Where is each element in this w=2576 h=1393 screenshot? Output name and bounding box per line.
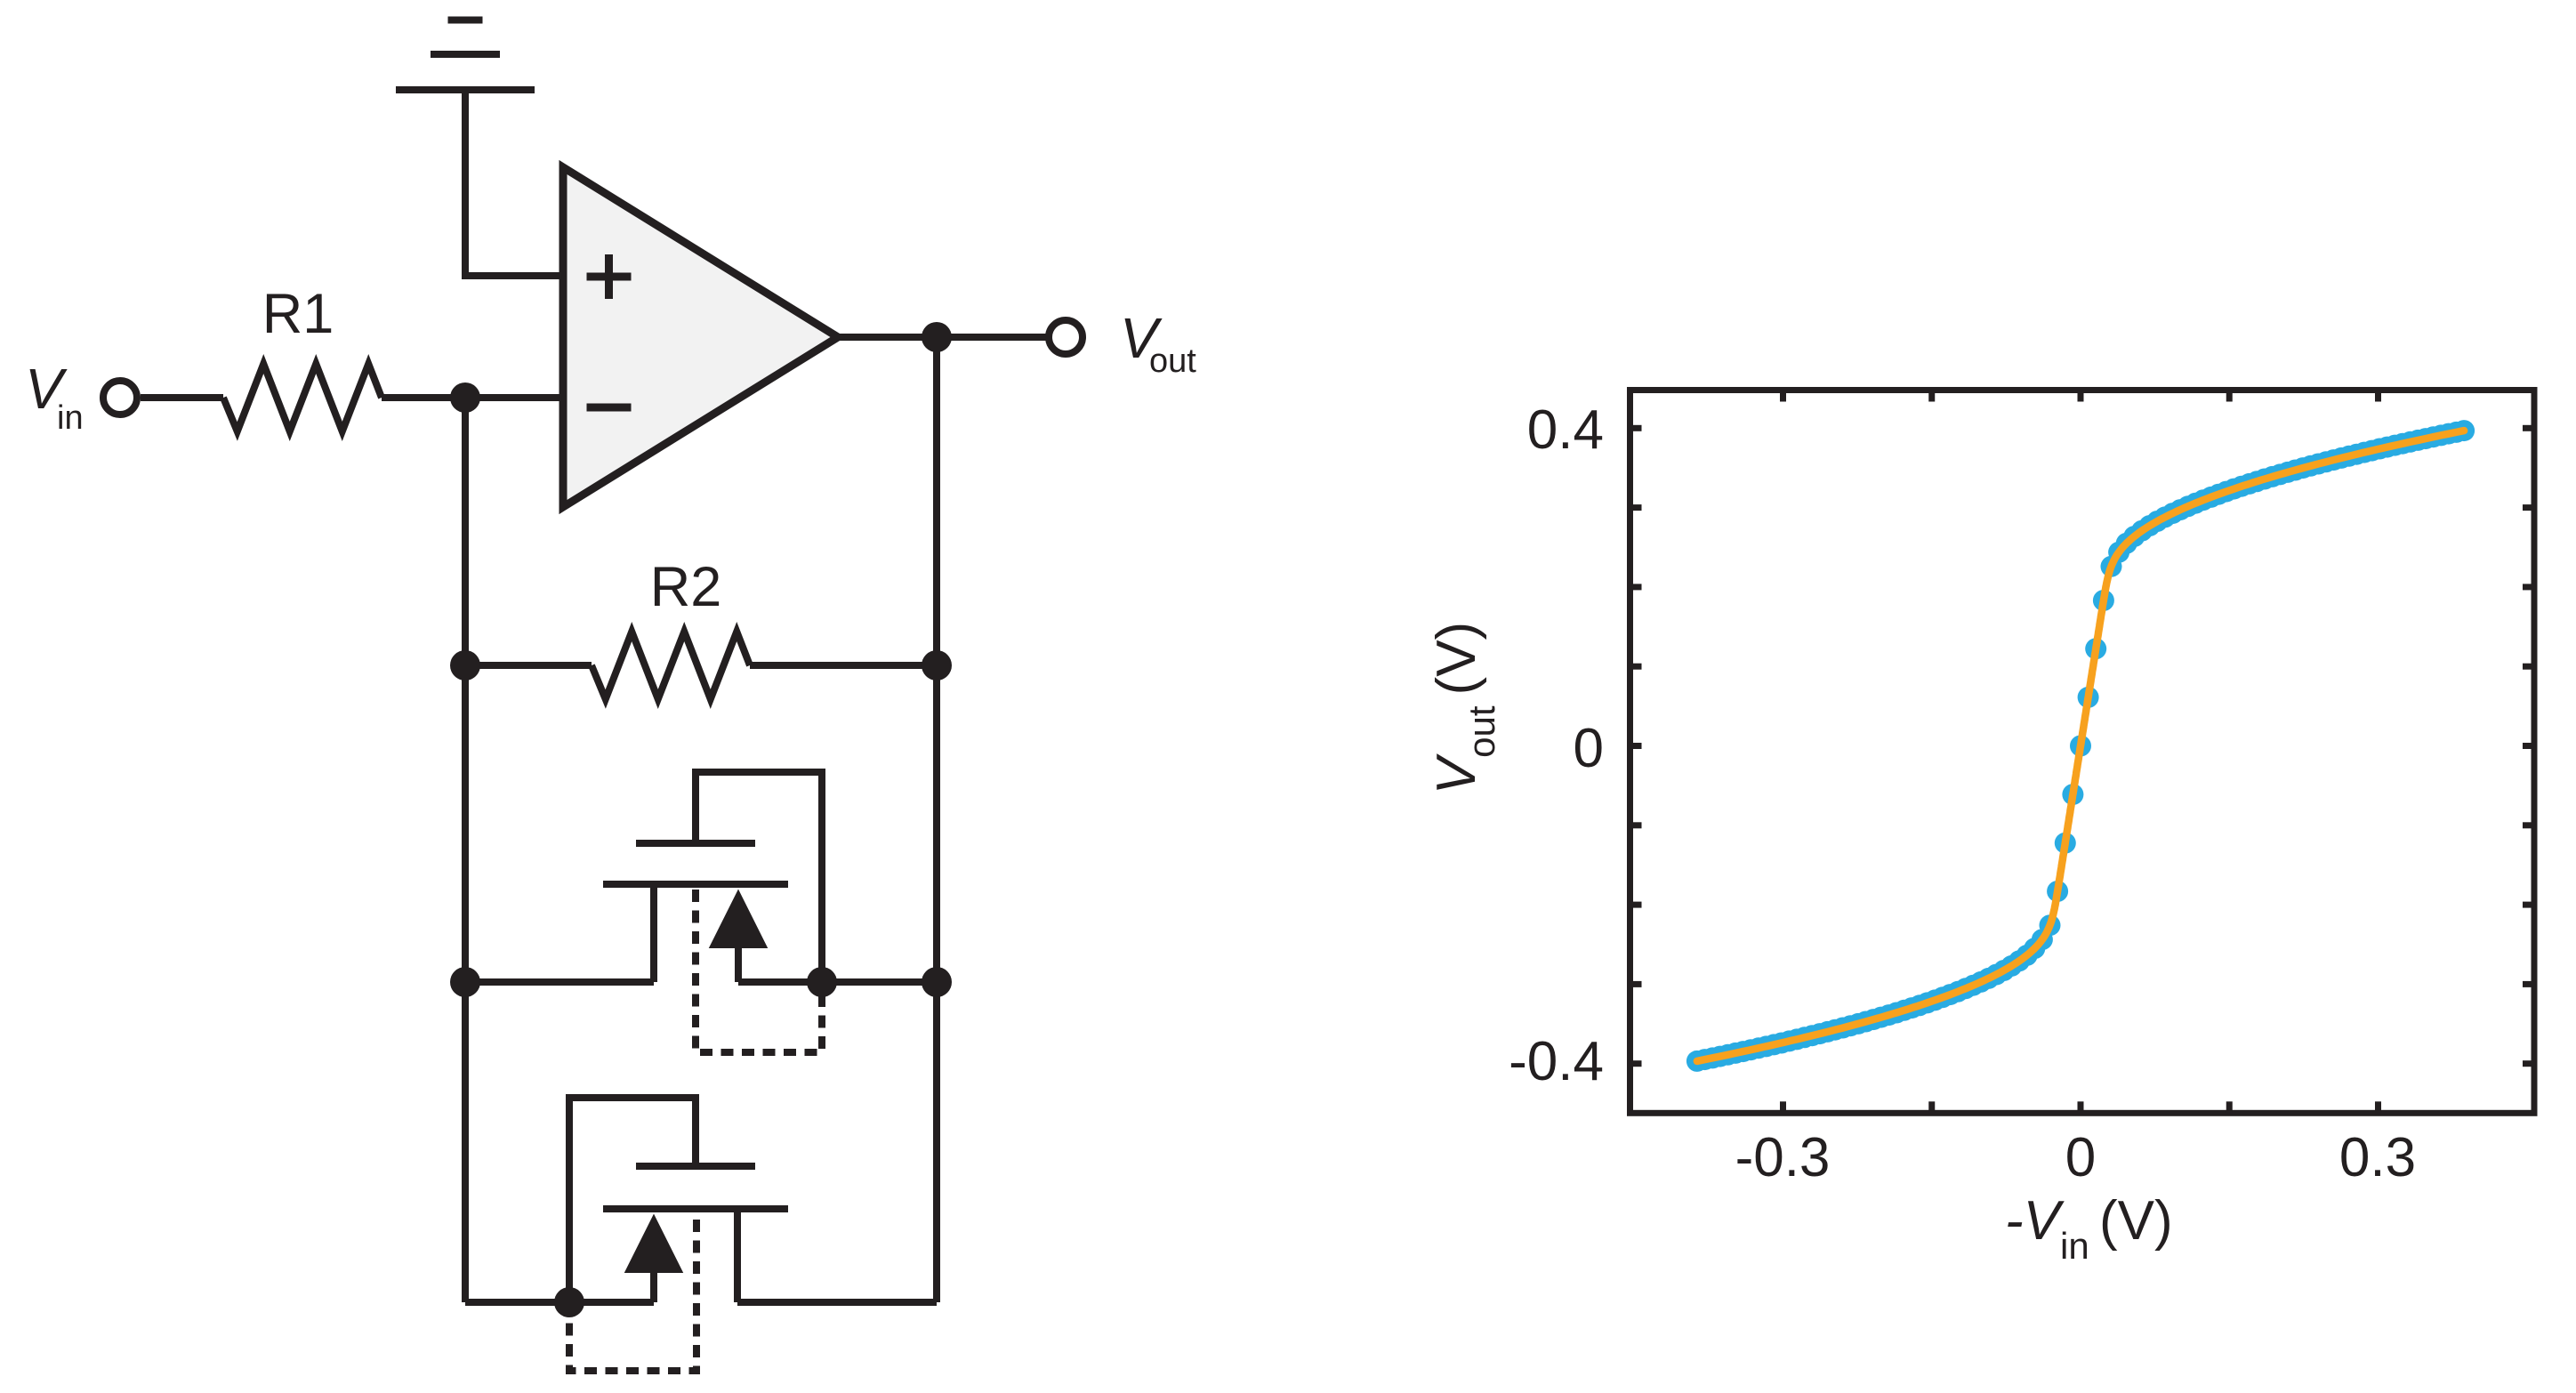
svg-text:R2: R2 (650, 556, 722, 618)
svg-text:0.3: 0.3 (2339, 1127, 2416, 1188)
svg-text:out: out (1149, 342, 1196, 380)
svg-text:0.4: 0.4 (1527, 399, 1604, 461)
svg-text:(V): (V) (2099, 1190, 2173, 1252)
svg-text:in: in (2060, 1225, 2089, 1267)
svg-text:-0.4: -0.4 (1509, 1031, 1604, 1092)
svg-text:R1: R1 (262, 283, 334, 345)
svg-text:0: 0 (1574, 718, 1604, 779)
svg-text:-0.3: -0.3 (1735, 1127, 1831, 1188)
svg-text:-V: -V (2005, 1190, 2065, 1252)
svg-text:0: 0 (2065, 1127, 2096, 1188)
svg-text:in: in (57, 399, 84, 437)
